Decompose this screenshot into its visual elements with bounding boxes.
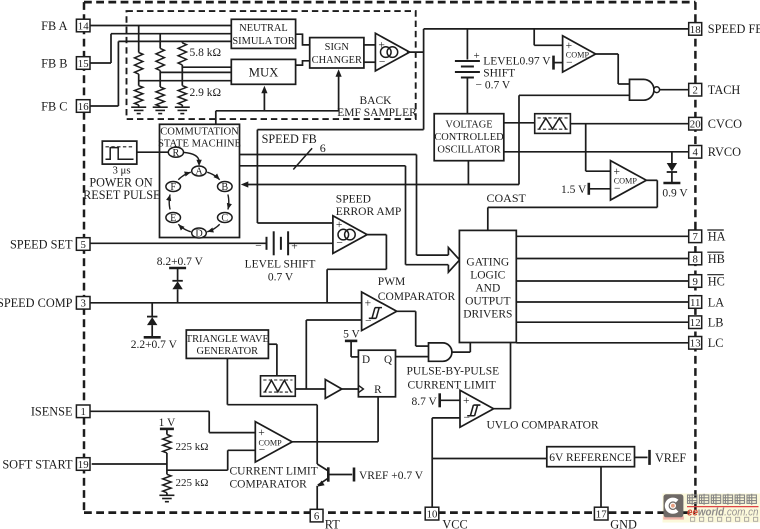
svg-text:SHIFT: SHIFT <box>483 68 515 80</box>
svg-text:5: 5 <box>80 239 85 251</box>
svg-text:GENERATOR: GENERATOR <box>197 346 259 357</box>
svg-text:1.5 V: 1.5 V <box>561 184 587 196</box>
svg-text:E: E <box>170 213 176 224</box>
svg-text:225 kΩ: 225 kΩ <box>176 441 209 453</box>
svg-text:0.7 V: 0.7 V <box>268 272 294 284</box>
svg-text:COMPARATOR: COMPARATOR <box>230 478 308 490</box>
svg-text:MUX: MUX <box>249 66 280 80</box>
svg-text:−: − <box>365 316 372 328</box>
svg-text:7: 7 <box>692 231 698 243</box>
svg-text:6V REFERENCE: 6V REFERENCE <box>549 452 632 464</box>
svg-text:− 0.7 V: − 0.7 V <box>476 80 511 92</box>
svg-text:+: + <box>291 241 298 253</box>
svg-text:1 V: 1 V <box>159 417 176 429</box>
svg-text:SOFT START: SOFT START <box>2 457 73 471</box>
svg-text:RESET PULSE: RESET PULSE <box>83 188 160 202</box>
svg-text:13: 13 <box>690 338 701 350</box>
svg-text:LA: LA <box>708 295 725 309</box>
svg-text:UVLO COMPARATOR: UVLO COMPARATOR <box>487 420 599 432</box>
svg-text:PWM: PWM <box>378 276 405 288</box>
svg-text:LEVEL SHIFT: LEVEL SHIFT <box>245 259 316 271</box>
svg-text:VCC: VCC <box>442 517 467 529</box>
svg-text:CURRENT LIMIT: CURRENT LIMIT <box>408 379 496 391</box>
svg-text:COAST: COAST <box>487 191 527 205</box>
svg-text:HC: HC <box>708 274 725 288</box>
svg-text:0.97 V: 0.97 V <box>520 56 552 68</box>
svg-text:COMP: COMP <box>566 50 590 59</box>
svg-text:R: R <box>374 384 382 396</box>
svg-text:+: + <box>474 50 480 62</box>
svg-text:D: D <box>195 229 202 240</box>
svg-text:8.7 V: 8.7 V <box>411 396 437 408</box>
svg-text:GND: GND <box>610 517 637 529</box>
svg-text:RT: RT <box>325 517 340 529</box>
svg-text:−: − <box>255 241 262 253</box>
svg-text:FB B: FB B <box>41 56 67 70</box>
svg-text:Q: Q <box>384 354 392 366</box>
svg-text:DRIVERS: DRIVERS <box>463 309 512 321</box>
svg-text:TRIANGLE WAVE: TRIANGLE WAVE <box>186 334 269 345</box>
svg-text:18: 18 <box>690 24 701 36</box>
svg-text:A: A <box>195 167 203 178</box>
svg-text:NEUTRAL: NEUTRAL <box>239 23 287 34</box>
svg-text:TACH: TACH <box>708 83 741 97</box>
svg-text:SPEED SET: SPEED SET <box>10 237 73 251</box>
svg-text:8: 8 <box>692 253 697 265</box>
svg-text:225 kΩ: 225 kΩ <box>176 477 209 489</box>
svg-text:20: 20 <box>690 119 701 131</box>
svg-text:9: 9 <box>692 276 697 288</box>
svg-text:C: C <box>221 213 228 224</box>
svg-text:ERROR AMP: ERROR AMP <box>336 206 402 218</box>
svg-text:ISENSE: ISENSE <box>31 405 73 419</box>
svg-text:−: − <box>379 56 386 68</box>
svg-text:LOGIC: LOGIC <box>470 270 505 282</box>
svg-text:6: 6 <box>314 511 320 523</box>
svg-text:LC: LC <box>708 336 724 350</box>
svg-text:LEVEL: LEVEL <box>483 56 519 68</box>
svg-text:RVCO: RVCO <box>708 145 741 159</box>
svg-text:10: 10 <box>427 509 438 521</box>
svg-text:eeworld.com.cn: eeworld.com.cn <box>687 506 759 518</box>
svg-text:OSCILLATOR: OSCILLATOR <box>437 145 500 156</box>
svg-text:D: D <box>362 354 370 366</box>
svg-text:R: R <box>173 148 180 159</box>
svg-text:16: 16 <box>78 101 89 113</box>
svg-text:HB: HB <box>708 252 725 266</box>
svg-text:FB C: FB C <box>41 99 67 113</box>
svg-text:CONTROLLED: CONTROLLED <box>434 132 504 143</box>
svg-text:SIMULA TOR: SIMULA TOR <box>232 36 294 47</box>
svg-text:2.9 kΩ: 2.9 kΩ <box>190 87 222 99</box>
svg-text:BACK: BACK <box>360 95 393 107</box>
svg-text:8.2+0.7 V: 8.2+0.7 V <box>157 256 204 268</box>
svg-text:HA: HA <box>708 230 726 244</box>
svg-text:3: 3 <box>80 298 85 310</box>
svg-text:VOLTAGE: VOLTAGE <box>445 120 492 131</box>
svg-text:19: 19 <box>78 459 89 471</box>
svg-text:GATING: GATING <box>466 257 509 269</box>
svg-text:CVCO: CVCO <box>708 117 742 131</box>
svg-text:COMP: COMP <box>614 177 638 186</box>
svg-text:F: F <box>170 182 176 193</box>
svg-text:VREF +0.7 V: VREF +0.7 V <box>359 470 424 482</box>
svg-text:SPEED COMP: SPEED COMP <box>0 296 73 310</box>
svg-text:PULSE-BY-PULSE: PULSE-BY-PULSE <box>407 366 500 378</box>
svg-text:FB A: FB A <box>41 19 67 33</box>
svg-text:1: 1 <box>80 406 85 418</box>
svg-text:COMPARATOR: COMPARATOR <box>378 291 456 303</box>
svg-text:2.2+0.7 V: 2.2+0.7 V <box>131 339 178 351</box>
svg-text:5 V: 5 V <box>343 328 360 340</box>
svg-text:SIGN: SIGN <box>325 42 350 53</box>
svg-text:2: 2 <box>692 85 697 97</box>
svg-text:CHANGER: CHANGER <box>312 55 362 66</box>
svg-text:15: 15 <box>78 58 89 70</box>
svg-text:LB: LB <box>708 316 724 330</box>
svg-text:SPEED FB: SPEED FB <box>708 22 760 36</box>
svg-text:SPEED: SPEED <box>336 193 371 205</box>
svg-text:17: 17 <box>596 509 607 521</box>
svg-text:EMF SAMPLER: EMF SAMPLER <box>337 107 417 119</box>
svg-text:+: + <box>463 395 470 407</box>
svg-text:12: 12 <box>690 317 701 329</box>
svg-text:B: B <box>221 182 228 193</box>
svg-text:OUTPUT: OUTPUT <box>465 296 510 308</box>
svg-text:−: − <box>464 412 471 424</box>
svg-text:AND: AND <box>475 283 500 295</box>
svg-text:5.8 kΩ: 5.8 kΩ <box>190 47 222 59</box>
svg-text:CURRENT LIMIT: CURRENT LIMIT <box>230 466 318 478</box>
svg-text:0.9 V: 0.9 V <box>662 188 688 200</box>
svg-text:14: 14 <box>78 20 89 32</box>
svg-text:COMMUTATION: COMMUTATION <box>160 127 239 138</box>
svg-text:4: 4 <box>692 147 698 159</box>
svg-text:SPEED FB: SPEED FB <box>262 132 317 146</box>
svg-text:+: + <box>365 298 372 310</box>
svg-text:COMP: COMP <box>259 438 283 447</box>
svg-text:11: 11 <box>690 297 700 309</box>
svg-text:6: 6 <box>320 141 326 155</box>
svg-text:VREF: VREF <box>655 451 686 465</box>
